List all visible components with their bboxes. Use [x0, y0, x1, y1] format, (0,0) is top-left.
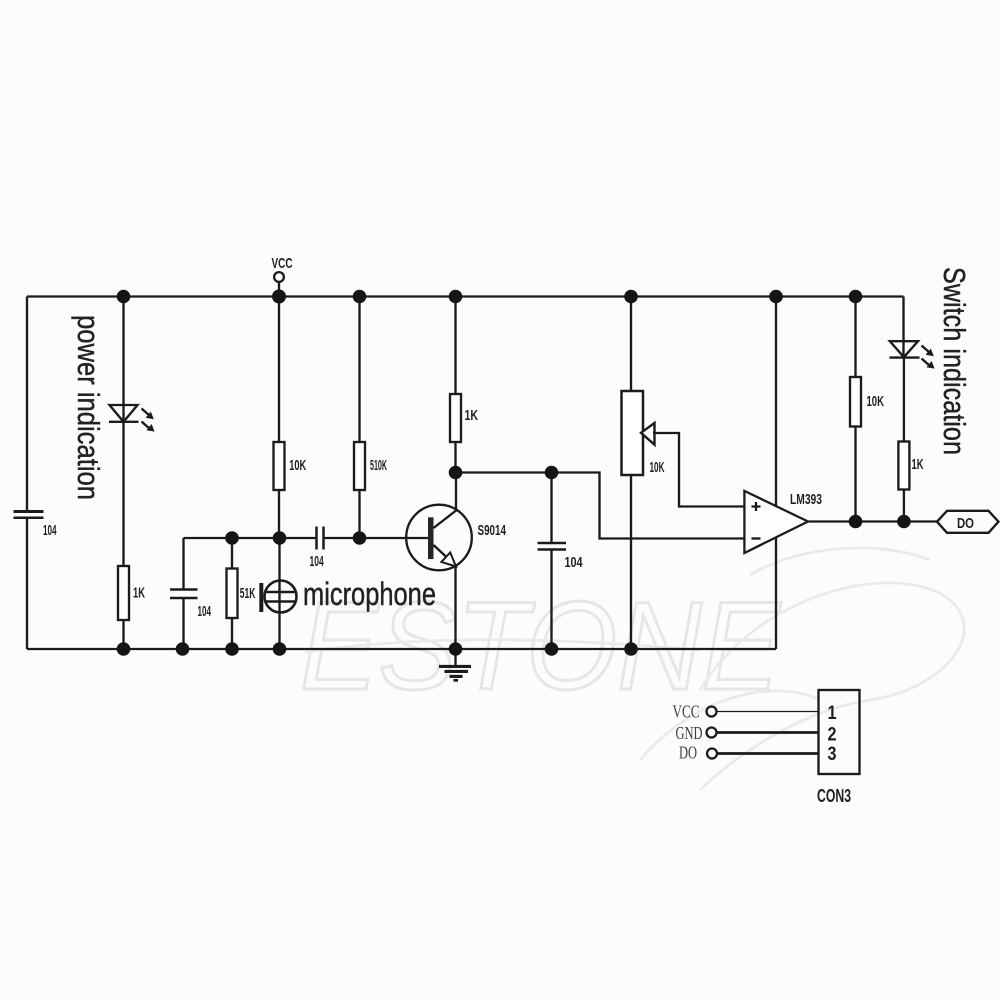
resistor R2 10K — [274, 442, 285, 490]
svg-text:GND: GND — [676, 723, 703, 743]
LED D1 power indication — [109, 405, 139, 422]
wire: R2 branch upper — [278, 297, 280, 443]
wire: C2 drop — [182, 538, 184, 590]
wire: R5 to collector node — [454, 442, 456, 473]
pin GND — [676, 723, 819, 743]
svg-text:104: 104 — [198, 603, 212, 620]
wire: C4 drop — [550, 473, 552, 544]
connector CON3 — [819, 690, 860, 774]
svg-text:104: 104 — [43, 522, 57, 539]
wire: R5 branch upper — [454, 297, 456, 395]
junction dots output line — [849, 515, 911, 529]
svg-text:microphone: microphone — [303, 576, 436, 612]
wire: C2 to ground rail — [182, 598, 184, 649]
ground symbol — [439, 649, 471, 680]
svg-text:LM393: LM393 — [790, 491, 822, 508]
DO off-page connector — [937, 511, 999, 533]
junction dots top rail — [117, 290, 863, 304]
svg-text:10K: 10K — [650, 459, 665, 476]
wire: LED1 to R1 — [122, 422, 124, 566]
wire: comparator output — [808, 520, 937, 522]
svg-text:1K: 1K — [133, 585, 145, 602]
LED D2 light arrows — [922, 346, 935, 369]
junction dots collector line — [449, 466, 559, 480]
svg-text:1K: 1K — [465, 407, 479, 424]
microphone MK1 — [259, 581, 296, 613]
wire: LM393 supply drop — [775, 297, 777, 650]
resistor R6 10K — [850, 377, 861, 427]
wire: R4 drop — [231, 538, 233, 569]
transistor Q1 S9014 — [406, 473, 472, 650]
wire: potentiometer to ground rail — [630, 475, 632, 649]
svg-text:2: 2 — [828, 725, 837, 746]
wire: LED2 to R7 — [903, 358, 905, 442]
svg-text:power indication: power indication — [71, 315, 106, 500]
resistor R3 510K — [354, 442, 365, 490]
svg-text:DO: DO — [957, 515, 974, 532]
wire: base line left part — [184, 537, 317, 539]
LED D1 light arrows — [142, 409, 155, 432]
svg-text:104: 104 — [310, 553, 325, 570]
svg-text:CON3: CON3 — [817, 786, 851, 806]
resistor R5 1K — [450, 394, 461, 442]
svg-text:S9014: S9014 — [478, 522, 507, 539]
wire: left rail upper segment — [26, 297, 28, 513]
capacitor C3 104 (series, base) — [317, 527, 324, 550]
wire: LED1 branch upper — [122, 297, 124, 422]
wire: R2 to base node — [278, 490, 280, 538]
wire: LED2 branch from top rail — [902, 297, 904, 358]
junction dots bottom rail — [117, 642, 638, 656]
capacitor C2 104 — [170, 590, 198, 599]
LED D2 switch indication — [890, 341, 920, 357]
wire: left rail lower segment — [26, 519, 28, 650]
wire: wiper to comparator plus input — [653, 433, 744, 507]
junction dots base line — [225, 531, 366, 545]
wire: R3 branch upper — [358, 297, 360, 443]
svg-text:10K: 10K — [289, 457, 306, 474]
wire: R6 branch upper — [854, 297, 856, 378]
op-amp U1 LM393 — [744, 491, 808, 553]
resistor R7 1K — [898, 442, 909, 490]
svg-text:104: 104 — [565, 554, 583, 571]
wire: R3 to base node — [358, 490, 360, 538]
wire: microphone branch — [278, 538, 280, 649]
svg-text:VCC: VCC — [673, 702, 700, 722]
svg-text:1K: 1K — [912, 456, 924, 473]
wire: top power rail — [27, 295, 904, 297]
svg-text:510K: 510K — [370, 457, 387, 474]
wire: R7 to output — [903, 490, 905, 522]
wire: R6 to output — [854, 427, 856, 522]
potentiometer RP1 10K — [622, 391, 655, 475]
svg-text:3: 3 — [828, 744, 837, 765]
svg-text:Switch indication: Switch indication — [937, 267, 972, 455]
wire: bottom ground rail — [27, 648, 776, 650]
wire: base line right part — [324, 537, 431, 539]
resistor R1 1K — [118, 566, 129, 620]
wire: R1 to ground rail — [122, 620, 124, 649]
wire: potentiometer branch upper — [630, 297, 632, 392]
capacitor C1 104 (left rail) — [14, 512, 44, 518]
svg-text:VCC: VCC — [272, 255, 293, 272]
watermark ESTONE — [300, 548, 964, 790]
resistor R4 51K — [227, 569, 238, 619]
svg-text:1: 1 — [828, 703, 837, 724]
svg-text:10K: 10K — [867, 393, 885, 410]
svg-text:DO: DO — [679, 743, 697, 763]
capacitor C4 104 — [538, 543, 567, 550]
VCC terminal — [272, 255, 293, 297]
wire: collector node to comparator branch — [456, 473, 745, 539]
pin DO — [679, 743, 819, 763]
pin VCC — [673, 702, 819, 722]
svg-text:51K: 51K — [240, 585, 256, 602]
wire: R4 to ground rail — [231, 618, 233, 649]
wire: C4 to ground rail — [550, 550, 552, 650]
